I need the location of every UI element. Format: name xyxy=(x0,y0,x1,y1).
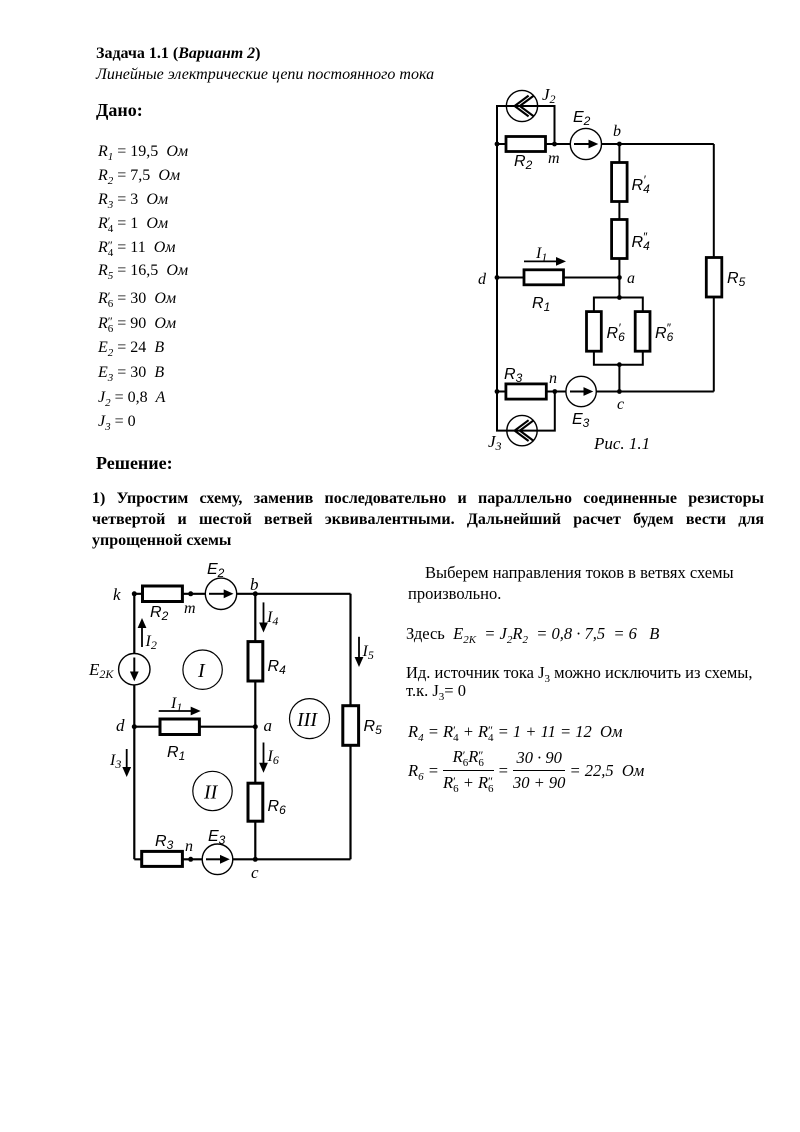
svg-text:c: c xyxy=(617,396,624,413)
wire d to R1 xyxy=(497,277,524,279)
resistor R6'' xyxy=(635,312,650,352)
wire k-m top xyxy=(497,143,570,145)
svg-text:R1: R1 xyxy=(167,744,185,763)
svg-text:I3: I3 xyxy=(109,752,121,771)
resistor R4'' xyxy=(612,220,628,259)
wire E3 to bottom-right corner xyxy=(233,858,351,860)
svg-text:I6: I6 xyxy=(267,748,279,767)
wire b down to R4' xyxy=(618,144,620,163)
svg-text:R6: R6 xyxy=(268,798,287,817)
svg-text:I1: I1 xyxy=(535,245,547,264)
resistor R4' xyxy=(612,163,628,202)
svg-text:E2: E2 xyxy=(573,109,591,128)
resistor R1 xyxy=(160,719,199,735)
svg-text:R3: R3 xyxy=(504,366,523,385)
svg-text:R4′: R4′ xyxy=(632,173,651,196)
svg-text:I5: I5 xyxy=(362,643,374,662)
paragraph xyxy=(92,488,764,551)
arrow I5 xyxy=(355,637,364,667)
current source J3 xyxy=(507,415,537,445)
resistor R6' xyxy=(587,312,602,352)
svg-text:I4: I4 xyxy=(266,609,278,628)
svg-text:b: b xyxy=(250,575,259,594)
formula R6 with fractions xyxy=(408,747,644,794)
svg-text:I: I xyxy=(197,660,206,682)
svg-text:E3: E3 xyxy=(208,828,226,847)
svg-text:J2: J2 xyxy=(542,85,556,106)
wire parallel bottom bar xyxy=(594,351,643,365)
given values list xyxy=(98,143,188,161)
svg-text:II: II xyxy=(203,782,219,804)
svg-text:m: m xyxy=(184,600,196,617)
right column text 2 xyxy=(406,664,776,700)
svg-text:R2: R2 xyxy=(514,153,533,172)
svg-text:R5: R5 xyxy=(727,270,746,289)
current source J2 xyxy=(506,90,537,121)
wire E2-b-corner xyxy=(237,593,351,595)
wire top k-b xyxy=(134,593,205,595)
node m xyxy=(552,142,557,147)
svg-text:k: k xyxy=(113,585,121,604)
node b xyxy=(253,591,258,596)
wire J3 loop xyxy=(497,392,555,431)
wire left vertical upper xyxy=(133,594,135,654)
figure Рис. 1.1 schematic xyxy=(455,70,800,460)
arrow I6 xyxy=(259,743,268,773)
resistor R2 xyxy=(506,137,546,152)
svg-text:b: b xyxy=(613,123,621,140)
node b xyxy=(617,142,622,147)
voltage source E3 xyxy=(202,844,233,875)
resistor R4 xyxy=(248,642,263,681)
wire b down to R4 xyxy=(254,594,256,642)
node bottom-left xyxy=(495,389,500,394)
resistor R1 xyxy=(524,270,564,285)
arrow I1 xyxy=(159,707,201,716)
wire bottom xyxy=(134,858,204,860)
resistor R5 xyxy=(706,258,722,298)
svg-text:J3: J3 xyxy=(488,432,502,453)
wire d-a xyxy=(134,726,255,728)
loop label III xyxy=(290,699,330,739)
node n xyxy=(188,857,193,862)
wire J2 loop xyxy=(497,106,555,144)
subtitle xyxy=(96,66,434,84)
wire R1 to a xyxy=(564,277,620,279)
svg-text:R6′: R6′ xyxy=(607,321,626,344)
wire right vertical lower xyxy=(349,745,351,859)
svg-text:m: m xyxy=(548,150,560,167)
voltage source E2 xyxy=(570,128,601,159)
arrow I4 xyxy=(259,602,268,632)
wire right vertical upper xyxy=(713,144,715,258)
formula R4 xyxy=(408,722,622,743)
svg-text:III: III xyxy=(296,709,318,731)
loop label II xyxy=(193,771,232,810)
wire a to parallel junction xyxy=(618,278,620,298)
wire E2 to b to top-right corner xyxy=(602,143,714,145)
wire E3 to bottom-right xyxy=(596,391,714,393)
node k xyxy=(132,591,137,596)
wire parallel top bar xyxy=(594,298,643,312)
wire left vertical lower xyxy=(133,685,135,859)
svg-text:I1: I1 xyxy=(170,695,182,714)
node top-left xyxy=(495,142,500,147)
Дано heading xyxy=(96,100,143,121)
wire right vertical lower xyxy=(713,297,715,392)
svg-text:I2: I2 xyxy=(145,633,157,652)
node a xyxy=(253,724,258,729)
svg-text:n: n xyxy=(185,838,193,855)
svg-text:d: d xyxy=(116,716,125,735)
voltage source E2K xyxy=(119,654,150,685)
svg-text:a: a xyxy=(264,716,273,735)
formula E2K xyxy=(406,624,659,644)
arrow I2 xyxy=(138,618,147,647)
node c xyxy=(253,857,258,862)
svg-text:Рис. 1.1: Рис. 1.1 xyxy=(593,434,650,453)
node parallel bottom junction xyxy=(617,362,622,367)
resistor R5 xyxy=(343,706,359,746)
svg-text:c: c xyxy=(251,863,259,882)
simplified circuit schematic xyxy=(80,552,390,887)
resistor R2 xyxy=(143,586,183,602)
node n xyxy=(552,389,557,394)
node c xyxy=(617,389,622,394)
node m xyxy=(188,591,193,596)
wire junction to c xyxy=(618,365,620,392)
Решение heading xyxy=(96,453,173,474)
wire a down to R6 xyxy=(254,727,256,784)
svg-text:R4: R4 xyxy=(268,658,287,677)
node d xyxy=(132,724,137,729)
title xyxy=(96,45,260,63)
wire left vertical d-branch xyxy=(496,144,498,392)
svg-text:E2К: E2К xyxy=(88,660,114,681)
arrow I1 xyxy=(524,257,566,266)
right column text 1 xyxy=(408,563,768,604)
resistor R6 xyxy=(248,783,263,821)
svg-text:R6″: R6″ xyxy=(655,321,674,344)
svg-text:R2: R2 xyxy=(150,604,169,623)
arrow I3 xyxy=(122,749,131,777)
svg-text:R5: R5 xyxy=(364,718,383,737)
svg-text:R3: R3 xyxy=(155,833,174,852)
svg-text:R4″: R4″ xyxy=(632,230,651,253)
wire between R4' and R4'' xyxy=(618,202,620,220)
voltage source E2 xyxy=(205,578,236,609)
svg-text:a: a xyxy=(627,270,635,287)
node a xyxy=(617,275,622,280)
svg-text:E2: E2 xyxy=(207,561,225,580)
node parallel top junction xyxy=(617,295,622,300)
wire R4'' to a xyxy=(618,259,620,278)
wire right vertical upper xyxy=(349,594,351,706)
svg-text:R1: R1 xyxy=(532,295,550,314)
voltage source E3 xyxy=(566,376,596,406)
svg-text:E3: E3 xyxy=(572,411,590,430)
loop label I xyxy=(183,650,222,689)
wire R6 to c xyxy=(254,821,256,859)
resistor R3 xyxy=(506,384,546,399)
node d xyxy=(495,275,500,280)
resistor R3 xyxy=(142,851,183,866)
svg-text:n: n xyxy=(549,370,557,387)
svg-text:d: d xyxy=(478,271,487,288)
wire bottom left segment xyxy=(497,391,566,393)
wire R4 to a xyxy=(254,681,256,727)
